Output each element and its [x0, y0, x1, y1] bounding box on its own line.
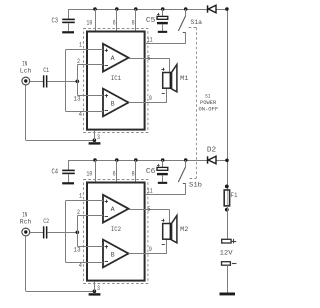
svg-text:1: 1 — [79, 41, 82, 48]
svg-text:S1: S1 — [205, 94, 211, 100]
svg-text:2: 2 — [77, 209, 80, 216]
svg-text:M2: M2 — [180, 226, 189, 233]
svg-text:IC2: IC2 — [111, 226, 121, 234]
svg-text:C3: C3 — [52, 18, 59, 26]
svg-text:13: 13 — [73, 95, 80, 102]
svg-text:10: 10 — [86, 171, 92, 178]
svg-text:11: 11 — [147, 188, 153, 195]
svg-text:D2: D2 — [207, 146, 216, 154]
svg-text:C5: C5 — [146, 17, 155, 25]
svg-text:4: 4 — [79, 262, 82, 269]
svg-text:3: 3 — [97, 285, 100, 292]
svg-text:13: 13 — [73, 246, 80, 253]
svg-text:5: 5 — [147, 55, 150, 62]
svg-text:4: 4 — [79, 111, 82, 118]
svg-text:A: A — [111, 206, 115, 213]
svg-text:S1a: S1a — [190, 19, 202, 26]
svg-text:F1: F1 — [231, 192, 238, 199]
svg-text:12V: 12V — [220, 250, 234, 258]
svg-text:IN: IN — [22, 60, 27, 67]
svg-text:Rch: Rch — [20, 219, 32, 226]
svg-text:A: A — [111, 55, 115, 62]
svg-text:C4: C4 — [52, 169, 59, 177]
svg-text:10: 10 — [86, 20, 92, 27]
svg-text:B: B — [111, 101, 115, 108]
svg-text:1: 1 — [79, 192, 82, 199]
svg-text:Lch: Lch — [20, 68, 32, 75]
svg-text:S1b: S1b — [189, 181, 202, 188]
svg-text:8: 8 — [132, 171, 135, 178]
svg-text:IC1: IC1 — [111, 75, 121, 83]
svg-text:8: 8 — [132, 20, 135, 27]
svg-text:11: 11 — [147, 37, 153, 44]
svg-text:B: B — [111, 252, 115, 259]
svg-text:5: 5 — [147, 206, 150, 213]
svg-text:ON-OFF: ON-OFF — [199, 106, 219, 112]
svg-text:IN: IN — [22, 211, 27, 218]
svg-text:6: 6 — [113, 20, 116, 27]
svg-text:M1: M1 — [180, 75, 189, 82]
svg-text:6: 6 — [113, 171, 116, 178]
svg-text:2: 2 — [77, 58, 80, 65]
svg-text:9: 9 — [149, 246, 152, 253]
svg-text:POWER: POWER — [200, 100, 217, 106]
svg-text:C6: C6 — [146, 168, 155, 176]
svg-text:C2: C2 — [43, 218, 49, 225]
svg-text:3: 3 — [97, 134, 100, 141]
svg-text:C1: C1 — [43, 67, 49, 74]
svg-text:9: 9 — [149, 95, 152, 102]
